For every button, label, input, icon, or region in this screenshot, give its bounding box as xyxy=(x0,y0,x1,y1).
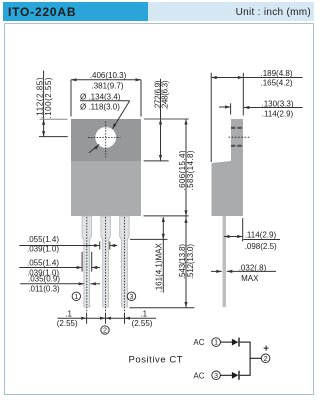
header light band xyxy=(148,2,314,21)
leads end extension line xyxy=(130,307,195,309)
svg-text:.011(0.3): .011(0.3) xyxy=(28,285,60,294)
svg-text:1: 1 xyxy=(214,340,218,347)
svg-text:.406(10.3): .406(10.3) xyxy=(90,71,127,80)
svg-text:1: 1 xyxy=(74,294,78,301)
svg-text:.114(2.9): .114(2.9) xyxy=(262,110,294,119)
lead 3 xyxy=(120,216,129,307)
svg-text:.189(4.8): .189(4.8) xyxy=(260,69,292,78)
dim .406/.381 line xyxy=(71,79,141,81)
diode D2 xyxy=(232,372,238,379)
svg-text:.161(4.1)MAX: .161(4.1)MAX xyxy=(154,242,163,292)
side silhouette xyxy=(212,119,244,216)
pitch arrows xyxy=(81,317,87,320)
svg-text:.512(13.0): .512(13.0) xyxy=(186,244,195,279)
lead 1 centerline xyxy=(86,217,88,312)
svg-text:AC: AC xyxy=(193,371,204,380)
svg-text:.098(2.5): .098(2.5) xyxy=(245,242,277,251)
svg-text:.112(2.85): .112(2.85) xyxy=(36,77,45,118)
lead 1 xyxy=(82,216,91,307)
front view tab xyxy=(71,119,141,161)
lead 2 xyxy=(101,216,110,307)
plus sign xyxy=(264,347,269,349)
dim .189/.165 ext lines xyxy=(210,73,212,162)
front view body xyxy=(71,161,141,216)
dim .130/.114 xyxy=(219,106,231,108)
wire node3 to D2 xyxy=(221,374,233,376)
svg-text:.1: .1 xyxy=(140,310,147,319)
svg-text:Ø .134(3.4): Ø .134(3.4) xyxy=(80,92,121,101)
svg-text:.381(9.7): .381(9.7) xyxy=(91,82,123,91)
svg-text:.248(6.3): .248(6.3) xyxy=(161,80,170,110)
dim .161(4.1)MAX xyxy=(162,218,164,293)
junction vertical wire xyxy=(249,342,251,375)
pin 2 circle xyxy=(101,326,109,334)
wire D1 to junction xyxy=(240,341,251,343)
svg-text:.100(2.55): .100(2.55) xyxy=(44,77,53,118)
node 3 xyxy=(212,371,221,380)
svg-text:.1: .1 xyxy=(65,310,72,319)
hole crosshair horizontal xyxy=(88,136,121,138)
header cyan bar xyxy=(3,2,148,21)
svg-text:(2.55): (2.55) xyxy=(57,319,78,328)
svg-text:2: 2 xyxy=(103,328,107,335)
svg-text:.055(1.4): .055(1.4) xyxy=(27,235,59,244)
dim .606/.583 + .543/.512 line xyxy=(185,119,187,308)
pin 3 circle xyxy=(127,292,135,300)
dim .272/.248 (tab height) xyxy=(160,79,162,161)
svg-text:.165(4.2): .165(4.2) xyxy=(260,78,292,87)
svg-text:Unit : inch (mm): Unit : inch (mm) xyxy=(236,7,311,18)
svg-text:Positive CT: Positive CT xyxy=(129,355,184,366)
pin 1 circle xyxy=(72,292,80,300)
node 1 xyxy=(212,338,221,347)
lead 3 centerline xyxy=(123,217,125,312)
node 2 xyxy=(261,354,270,363)
hole dia lower arrow xyxy=(89,144,99,153)
svg-text:3: 3 xyxy=(214,373,218,380)
svg-text:.130(3.3): .130(3.3) xyxy=(261,99,293,108)
side lead xyxy=(223,216,227,307)
dim .406/.381 extension lines xyxy=(70,80,72,117)
side hole centerline xyxy=(229,136,250,138)
hole crosshair vertical xyxy=(105,122,107,158)
pitch dim line xyxy=(58,317,157,319)
hidden hole bottom edge xyxy=(231,145,243,147)
svg-text:2: 2 xyxy=(264,356,268,363)
svg-text:.055(1.4): .055(1.4) xyxy=(27,259,59,268)
svg-text:ITO-220AB: ITO-220AB xyxy=(8,5,76,19)
output stub wire xyxy=(250,357,261,359)
wire node1 to D1 xyxy=(221,341,233,343)
wire D2 to junction xyxy=(240,374,251,376)
dim .112/.100 (left) xyxy=(43,71,45,137)
svg-text:.114(2.9): .114(2.9) xyxy=(245,231,277,240)
body bottom extension line xyxy=(144,215,189,217)
hidden hole top edge xyxy=(231,127,243,129)
dim .189/.165 line xyxy=(211,77,302,79)
svg-text:3: 3 xyxy=(130,294,134,301)
pitch ticks xyxy=(86,313,88,324)
svg-text:AC: AC xyxy=(193,338,204,347)
svg-text:MAX: MAX xyxy=(241,274,259,283)
dim .114/.098 (lead offset) xyxy=(242,218,244,242)
mounting hole xyxy=(95,127,116,148)
hole dia leader xyxy=(113,101,130,129)
svg-text:Ø .118(3.0): Ø .118(3.0) xyxy=(80,102,120,111)
svg-text:.583(14.8): .583(14.8) xyxy=(186,150,195,190)
svg-text:.032(.8): .032(.8) xyxy=(239,263,267,272)
body top extension line xyxy=(144,118,189,120)
svg-text:(2.55): (2.55) xyxy=(132,319,153,328)
diode D1 xyxy=(232,339,238,346)
svg-text:.035(0.9): .035(0.9) xyxy=(28,275,60,284)
lead 2 centerline xyxy=(105,217,107,312)
svg-text:.039(1.0): .039(1.0) xyxy=(27,244,59,253)
dim .032/MAX (lead thickness) xyxy=(211,270,222,272)
